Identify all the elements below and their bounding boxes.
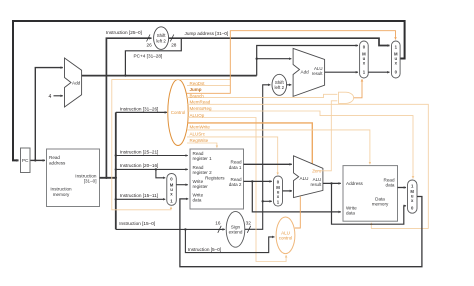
svg-text:data: data: [346, 211, 355, 216]
control signal Branch: [187, 94, 337, 97]
memory Instruction memory: [47, 149, 100, 207]
svg-text:[31–0]: [31–0]: [84, 179, 97, 184]
svg-text:Branch: Branch: [190, 93, 205, 98]
mux ALUSrc: [274, 176, 283, 206]
register file Registers: [190, 149, 244, 209]
alu-control ALU control: [276, 217, 295, 254]
control signal RegDst (left loop to RegDst mux): [112, 80, 231, 210]
node sign extend to ALUSrc mux tap: [262, 200, 264, 202]
svg-text:Instruction [25–21]: Instruction [25–21]: [120, 149, 159, 154]
label 26 tick: [147, 35, 151, 42]
svg-text:16: 16: [215, 221, 221, 226]
wire Instruction[31-26] to Control: [116, 111, 167, 113]
wire PC+4 to branch adder: [257, 58, 292, 60]
svg-text:4: 4: [49, 94, 52, 100]
mux write register (RegDst mux): [167, 174, 177, 206]
wire Read data 2 to ALUSrc mux 0: [244, 180, 272, 182]
control signal MemRead: [187, 104, 428, 228]
gate AND (branch and zero): [339, 92, 354, 103]
mux MemtoReg (final): [408, 180, 418, 213]
svg-text:Instruction [25–0]: Instruction [25–0]: [106, 30, 142, 35]
adder Add ALU result (branch): [293, 48, 325, 96]
svg-text:extend: extend: [229, 230, 243, 235]
wire instruction output to bus: [100, 177, 116, 179]
svg-text:ALU: ALU: [300, 176, 309, 181]
wire PC to instruction memory: [30, 159, 45, 161]
wire PC out up to Add: [35, 68, 63, 161]
wire Zero to AND gate: [313, 101, 337, 171]
alu ALU: [294, 156, 323, 198]
svg-text:result: result: [310, 182, 322, 187]
svg-text:register 1: register 1: [193, 156, 213, 161]
control signal MemWrite: [187, 130, 370, 164]
control signal ALUSrc: [187, 137, 278, 175]
svg-text:Registers: Registers: [205, 175, 225, 180]
mux branch (PCSrc mux): [360, 41, 369, 78]
wire shift left 2 to branch adder: [287, 84, 292, 86]
wire instruction bus vertical: [115, 112, 117, 229]
wire writeback to Write data: [180, 197, 422, 267]
svg-text:Instruction [5–0]: Instruction [5–0]: [188, 247, 221, 252]
svg-text:Instruction [15–11]: Instruction [15–11]: [120, 193, 158, 198]
wire ALU result bypass to final mux 0: [332, 183, 407, 224]
svg-text:control: control: [279, 236, 293, 241]
node instruction[25-0] junction: [105, 177, 107, 179]
svg-text:Sign: Sign: [231, 224, 241, 229]
svg-text:memory: memory: [372, 202, 389, 207]
adder Add (PC+4): [65, 58, 82, 107]
control signal ALUOp: [187, 118, 286, 262]
svg-text:Shift: Shift: [157, 33, 167, 38]
svg-text:data 2: data 2: [229, 182, 242, 187]
control signal Jump: [187, 31, 396, 94]
svg-text:Control: Control: [171, 110, 186, 115]
wire Read data 1 to ALU: [244, 163, 292, 165]
wire Instruction[20-16] to Read register 2: [116, 168, 188, 170]
svg-text:left 2: left 2: [156, 39, 166, 44]
svg-text:MemRead: MemRead: [190, 100, 211, 105]
svg-text:register: register: [193, 184, 209, 189]
svg-text:RegWrite: RegWrite: [190, 138, 209, 143]
svg-text:32: 32: [246, 221, 252, 226]
svg-text:Jump address [31–0]: Jump address [31–0]: [185, 31, 229, 36]
node PC out junction: [34, 159, 36, 161]
wire PC feedback rail (jump mux output to PC): [13, 21, 405, 160]
wire Read data to final mux 1: [398, 187, 407, 189]
shifter Shift left 2 (jump): [154, 27, 169, 50]
svg-text:PC: PC: [22, 158, 29, 164]
wire ALU control to ALU: [295, 196, 301, 228]
svg-text:Instruction [20–16]: Instruction [20–16]: [120, 163, 159, 168]
register PC: [21, 148, 31, 173]
svg-text:Add: Add: [301, 70, 310, 75]
wire jump address rail: [169, 38, 390, 45]
svg-text:Instruction [15–0]: Instruction [15–0]: [119, 221, 155, 226]
wire Instruction[15-11] to mux 1: [116, 198, 165, 200]
svg-text:Address: Address: [346, 181, 364, 186]
control signal MemtoReg: [187, 111, 413, 178]
wire Instruction[25-21] to Read register 1: [116, 155, 188, 157]
svg-text:26: 26: [147, 42, 153, 47]
node ALU result bypass junction: [330, 182, 332, 184]
memory Data memory: [343, 166, 398, 222]
svg-text:data 1: data 1: [229, 165, 242, 170]
label 28 tick: [170, 35, 174, 42]
node PC+4 branch-adder tap: [256, 58, 258, 60]
wire PC+4[31-28] tap: [125, 38, 181, 75]
wire mux to Write register: [176, 184, 188, 186]
svg-text:ALUSrc: ALUSrc: [190, 131, 206, 136]
wire PC+4 up to branch mux 0: [257, 46, 358, 76]
wire Instruction[5-0] to ALU control: [185, 229, 274, 252]
wire Read data 2 to Data memory Write data: [252, 181, 340, 212]
wire sign extend output up to shift left 2: [245, 85, 270, 230]
svg-text:Shift: Shift: [275, 80, 285, 85]
wire ALUSrc mux to ALU: [283, 190, 293, 192]
svg-text:MemWrite: MemWrite: [190, 124, 211, 129]
svg-text:Add: Add: [72, 80, 81, 85]
svg-text:left 2: left 2: [275, 85, 285, 90]
node Read data 2 write-data tap: [251, 180, 253, 182]
node instruction bus junction: [115, 177, 117, 179]
svg-text:ALU: ALU: [281, 230, 290, 235]
sign-extender Sign extend: [226, 211, 245, 247]
node Instruction[15-0] ALU-control tap: [184, 228, 186, 230]
wire branch adder to branch mux 1: [325, 71, 358, 73]
wire Add output (PC+4): [82, 75, 257, 77]
wire 4 to Add: [54, 95, 63, 97]
svg-text:ALUOp: ALUOp: [190, 113, 205, 118]
control signal RegWrite: [187, 143, 217, 148]
wire AND gate to branch mux select: [354, 79, 362, 98]
shifter Shift left 2 (branch): [272, 74, 287, 95]
label 32 tick: [247, 226, 250, 233]
wire Instruction[20-16] tap to mux 0: [156, 169, 165, 177]
wire jump Instruction[25-0] vertical tap: [106, 38, 151, 178]
svg-text:PC+4 [31–28]: PC+4 [31–28]: [134, 54, 163, 59]
svg-text:data: data: [386, 183, 395, 188]
mux jump: [392, 41, 401, 78]
svg-text:result: result: [312, 71, 324, 76]
control signal ALUOp thick branch line: [187, 123, 312, 171]
node PC+4 tap junction: [124, 74, 126, 76]
wire branch mux output to jump mux 0: [368, 71, 389, 73]
wire Instruction[15-0] to sign extend: [116, 228, 225, 230]
svg-text:memory: memory: [53, 192, 70, 197]
svg-text:data: data: [193, 198, 202, 203]
wire ALU result to Data memory Address: [323, 182, 341, 184]
control unit Control: [168, 80, 188, 146]
svg-text:Instruction [31–26]: Instruction [31–26]: [120, 107, 159, 112]
svg-text:Jump: Jump: [190, 87, 202, 92]
wire sign extend to ALUSrc mux 1: [263, 200, 272, 202]
label 16 tick: [218, 226, 221, 233]
svg-text:address: address: [49, 160, 66, 165]
svg-text:MemtoReg: MemtoReg: [190, 106, 213, 111]
svg-text:28: 28: [171, 42, 177, 47]
